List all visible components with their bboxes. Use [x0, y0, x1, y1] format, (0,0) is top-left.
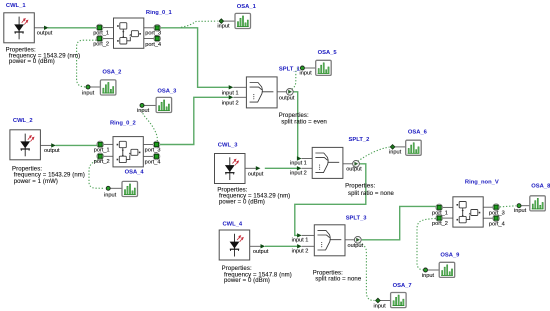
svg-text:port_2: port_2 — [432, 221, 448, 227]
splitter SPLT_2 — [290, 137, 395, 197]
Ring_non_V port_2 — [436, 215, 443, 222]
SPLT_1 output port — [286, 88, 293, 95]
wire CWL_3 output to SPLT_2 input 2 — [265, 167, 297, 169]
analyzer OSA_7 — [374, 283, 412, 309]
SPLT_3 input 1 arrow — [297, 233, 302, 237]
wire CWL_2 output to Ring_0_2 port_1 — [56, 144, 98, 146]
svg-text:split ratio = none: split ratio = none — [348, 191, 395, 197]
svg-text:port_4: port_4 — [489, 221, 505, 227]
Ring_0_2 port stub — [103, 143, 113, 145]
SPLT_3 port stub — [302, 245, 315, 247]
OSA_4 input port — [106, 186, 110, 190]
svg-text:input 1: input 1 — [290, 160, 307, 166]
svg-text:port_4: port_4 — [145, 159, 161, 165]
svg-text:output: output — [346, 166, 362, 172]
splitter icon of SPLT_1 — [246, 77, 277, 108]
OSA_6 input port — [390, 145, 395, 150]
SPLT_1 port stub — [233, 86, 246, 88]
Ring_non_V port stub — [443, 206, 453, 208]
svg-text:CWL_3: CWL_3 — [218, 143, 238, 149]
analyzer OSA_2 — [82, 69, 121, 96]
svg-text:port_1: port_1 — [432, 210, 448, 216]
SPLT_2 port stub — [343, 163, 352, 165]
spectrum bars icon of OSA_2 — [100, 80, 116, 95]
svg-text:input: input — [137, 108, 150, 114]
Ring_0_2 port stub — [103, 155, 113, 157]
OSA_8 port stub — [521, 205, 530, 207]
SPLT_3 port stub — [302, 234, 315, 236]
SPLT_3 input 2 arrow — [297, 244, 302, 248]
OSA_9 input port — [424, 268, 428, 272]
svg-text:Ring_0_1: Ring_0_1 — [146, 10, 173, 16]
svg-text:input: input — [514, 208, 527, 214]
svg-text:OSA_7: OSA_7 — [393, 283, 412, 289]
Ring_0_1 port stub — [103, 38, 114, 40]
svg-text:OSA_2: OSA_2 — [102, 69, 121, 75]
spectrum bars icon of OSA_5 — [316, 60, 332, 75]
svg-text:port_2: port_2 — [94, 159, 110, 165]
svg-text:Ring_non_V: Ring_non_V — [465, 180, 499, 186]
dotted wire Ring_0_2 port_2 to OSA_4 input — [89, 160, 104, 189]
ring resonator Ring_0_2 — [94, 120, 161, 167]
svg-text:Properties:: Properties: — [222, 266, 252, 272]
wire CWL_4 output to SPLT_3 input 2 — [265, 245, 297, 247]
OSA_8 input port — [517, 204, 521, 208]
svg-text:port_2: port_2 — [93, 42, 109, 48]
SPLT_1 input 1 arrow — [229, 85, 234, 89]
svg-text:OSA_3: OSA_3 — [157, 88, 177, 94]
Ring_non_V port_1 — [436, 204, 443, 211]
wire Ring_0_1 port_3 to SPLT_1 input 1 — [160, 28, 229, 88]
OSA_3 input port — [140, 103, 144, 107]
svg-text:output: output — [44, 148, 60, 154]
wire SPLT_3 output to Ring_non_V port_1 — [362, 206, 436, 239]
svg-text:OSA_5: OSA_5 — [318, 50, 338, 56]
splitter SPLT_1 — [222, 66, 327, 125]
Ring_0_1 port_3 — [154, 25, 161, 32]
SPLT_1 input 2 arrow — [229, 95, 234, 99]
svg-text:frequency = 1543.29 (nm): frequency = 1543.29 (nm) — [14, 172, 85, 178]
laser diode symbol of CWL_3 — [215, 154, 246, 184]
svg-text:OSA_8: OSA_8 — [531, 183, 550, 189]
ring resonator Ring_0_1 — [93, 10, 172, 49]
svg-text:input: input — [104, 193, 117, 199]
dotted wire SPLT_1 output to OSA_5 input — [292, 68, 301, 89]
svg-text:port_3: port_3 — [145, 148, 161, 154]
analyzer OSA_9 — [422, 252, 460, 279]
svg-text:output: output — [348, 243, 364, 249]
dotted wire Ring_0_2 port_3 to OSA_3 input — [142, 109, 157, 142]
Ring_non_V port_3 — [493, 204, 500, 211]
dotted wire Ring_0_1 port_3 to OSA_1 input — [181, 21, 218, 27]
SPLT_1 port stub — [277, 91, 286, 93]
spectrum bars icon of OSA_1 — [235, 13, 251, 28]
Ring_0_1 port stub — [144, 38, 154, 40]
Ring_non_V port_4 — [493, 215, 500, 222]
dotted wire Ring_non_V port_3 to OSA_8 input — [500, 206, 516, 207]
SPLT_2 input 2 arrow — [297, 166, 302, 170]
svg-text:output: output — [279, 95, 295, 101]
dotted wire SPLT_3 output to OSA_7 input — [359, 243, 374, 301]
wire Ring_0_2 port_3 to SPLT_1 input 2 — [160, 97, 229, 144]
laser CWL_4 — [219, 221, 292, 284]
Ring_0_2 port stub — [144, 144, 154, 146]
analyzer OSA_8 — [514, 183, 550, 214]
laser diode symbol of CWL_4 — [219, 230, 250, 260]
SPLT_2 output port — [353, 160, 360, 167]
laser diode symbol of CWL_2 — [10, 130, 41, 160]
svg-text:input 2: input 2 — [290, 170, 307, 176]
wire SPLT_1 output to SPLT_2 input 1 — [293, 92, 297, 159]
laser CWL_3 — [215, 143, 291, 206]
svg-text:input: input — [422, 273, 435, 279]
svg-text:port_3: port_3 — [145, 31, 161, 37]
OSA_7 port stub — [380, 300, 391, 302]
svg-text:SPLT_1: SPLT_1 — [279, 66, 301, 72]
analyzer OSA_3 — [137, 88, 177, 114]
CWL_3 output arrow — [256, 166, 261, 170]
svg-text:port_4: port_4 — [145, 42, 161, 48]
CWL_4 port stub — [250, 245, 261, 247]
Ring_0_2 port_1 — [97, 141, 104, 148]
svg-text:output: output — [253, 249, 269, 255]
svg-text:SPLT_2: SPLT_2 — [349, 137, 370, 143]
svg-text:input 2: input 2 — [222, 100, 239, 106]
compound block icon of Ring_0_2 — [113, 137, 143, 167]
dotted wire Ring_0_1 port_2 to OSA_2 input — [77, 40, 97, 87]
SPLT_3 output port — [354, 236, 361, 243]
Ring_0_2 port_3 — [153, 141, 160, 148]
svg-text:port_1: port_1 — [93, 30, 109, 36]
Ring_non_V port stub — [483, 217, 493, 219]
svg-text:SPLT_3: SPLT_3 — [346, 216, 368, 222]
compound block icon of Ring_non_V — [453, 197, 483, 227]
laser CWL_1 — [4, 3, 80, 65]
Ring_0_1 port_2 — [96, 35, 103, 42]
OSA_1 input port — [219, 19, 224, 24]
OSA_5 port stub — [305, 67, 316, 69]
svg-text:power = 0 (dBm): power = 0 (dBm) — [9, 59, 55, 65]
CWL_3 port stub — [245, 167, 256, 169]
svg-text:Properties:: Properties: — [345, 184, 375, 190]
Ring_non_V port stub — [443, 217, 453, 219]
svg-text:port_1: port_1 — [94, 147, 110, 153]
svg-text:input: input — [82, 90, 95, 96]
svg-text:CWL_4: CWL_4 — [223, 221, 243, 227]
spectrum bars icon of OSA_3 — [156, 97, 172, 112]
Ring_0_2 port_4 — [153, 153, 160, 160]
svg-text:Properties:: Properties: — [279, 113, 309, 119]
SPLT_2 input 1 arrow — [297, 156, 302, 160]
svg-text:power = 0 (dBm): power = 0 (dBm) — [224, 278, 270, 284]
svg-text:input: input — [389, 149, 402, 155]
splitter icon of SPLT_2 — [312, 147, 343, 178]
analyzer OSA_4 — [104, 169, 144, 198]
svg-text:input 1: input 1 — [222, 90, 239, 96]
laser CWL_2 — [10, 118, 85, 185]
Ring_0_1 port_1 — [96, 24, 103, 31]
svg-text:CWL_1: CWL_1 — [6, 3, 26, 9]
SPLT_2 port stub — [302, 167, 313, 169]
wire SPLT_2 output to SPLT_3 input 1 — [295, 164, 366, 236]
svg-text:Ring_0_2: Ring_0_2 — [110, 120, 136, 126]
spectrum bars icon of OSA_6 — [406, 140, 422, 155]
svg-text:CWL_2: CWL_2 — [13, 118, 33, 124]
svg-text:OSA_9: OSA_9 — [440, 252, 460, 258]
dotted wire Ring_non_V port_2 to OSA_9 input — [417, 219, 436, 270]
SPLT_1 port stub — [233, 96, 246, 98]
CWL_1 output arrow — [44, 26, 49, 30]
Ring_0_1 port_4 — [154, 35, 161, 42]
OSA_2 port stub — [90, 86, 101, 88]
OSA_9 port stub — [428, 269, 440, 271]
OSA_2 input port — [86, 85, 90, 89]
OSA_6 port stub — [395, 146, 406, 148]
SPLT_2 port stub — [302, 158, 313, 160]
spectrum bars icon of OSA_8 — [530, 196, 546, 211]
svg-text:power = 1 (mW): power = 1 (mW) — [14, 179, 58, 185]
svg-text:split ratio = none: split ratio = none — [315, 277, 362, 283]
svg-text:input: input — [217, 23, 230, 29]
splitter icon of SPLT_3 — [314, 225, 345, 256]
compound block icon of Ring_0_1 — [114, 18, 144, 48]
Ring_0_1 port stub — [144, 27, 154, 29]
Ring_0_1 port stub — [103, 27, 114, 29]
OSA_7 input port — [376, 298, 381, 303]
svg-text:input: input — [374, 304, 387, 310]
svg-text:output: output — [248, 171, 264, 177]
laser diode symbol of CWL_1 — [4, 13, 35, 43]
analyzer OSA_6 — [389, 130, 428, 156]
spectrum bars icon of OSA_9 — [439, 262, 455, 277]
analyzer OSA_1 — [217, 4, 256, 30]
analyzer OSA_5 — [300, 50, 338, 77]
svg-text:output: output — [37, 31, 53, 37]
svg-text:power = 0 (dBm): power = 0 (dBm) — [219, 200, 265, 206]
svg-text:input 2: input 2 — [292, 248, 309, 254]
svg-text:OSA_4: OSA_4 — [125, 169, 145, 175]
OSA_1 port stub — [223, 20, 235, 22]
svg-text:port_3: port_3 — [489, 210, 505, 216]
splitter SPLT_3 — [292, 216, 368, 283]
ring resonator Ring_non_V — [432, 180, 505, 228]
svg-text:Properties:: Properties: — [313, 270, 343, 276]
spectrum bars icon of OSA_4 — [122, 181, 138, 196]
wire CWL_1 output to Ring_0_1 port_1 — [48, 27, 97, 29]
OSA_5 input port — [300, 66, 304, 70]
Ring_non_V port stub — [483, 206, 493, 208]
Ring_0_2 port stub — [144, 155, 154, 157]
OSA_3 port stub — [144, 104, 156, 106]
CWL_2 port stub — [40, 144, 51, 146]
Ring_0_2 port_2 — [97, 153, 104, 160]
CWL_2 output arrow — [51, 143, 56, 147]
svg-text:input 1: input 1 — [292, 237, 309, 243]
spectrum bars icon of OSA_7 — [391, 293, 407, 308]
dotted wire SPLT_2 output to OSA_6 input — [358, 147, 390, 161]
svg-text:OSA_1: OSA_1 — [237, 4, 257, 10]
svg-text:OSA_6: OSA_6 — [408, 130, 428, 136]
CWL_1 port stub — [34, 27, 44, 29]
CWL_4 output arrow — [261, 244, 266, 248]
SPLT_3 port stub — [345, 239, 355, 241]
OSA_4 port stub — [110, 187, 122, 189]
svg-text:split ratio = even: split ratio = even — [281, 119, 327, 125]
svg-text:input: input — [300, 71, 313, 77]
